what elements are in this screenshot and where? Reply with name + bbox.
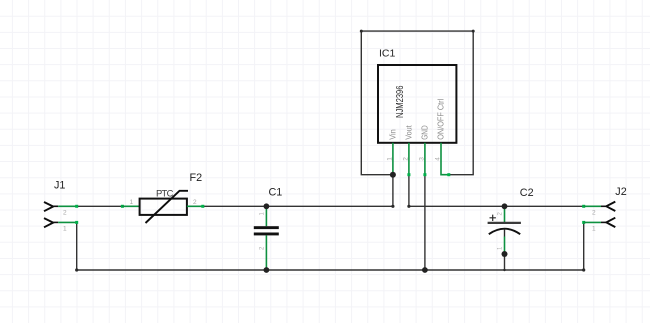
F2 pin 2 (187, 205, 204, 207)
pin 2 stub (408, 143, 410, 175)
svg-text:2: 2 (193, 199, 197, 206)
svg-text:C1: C1 (269, 187, 283, 199)
node: rail start at pin2 (407, 205, 410, 208)
capacitor C1 (254, 187, 283, 270)
plus sign (490, 215, 496, 221)
svg-text:Vin: Vin (387, 129, 397, 140)
node: J1 corner bottom (75, 268, 78, 271)
wire: J2 pin1 drop (583, 222, 585, 270)
svg-text:F2: F2 (190, 172, 203, 184)
svg-text:1: 1 (130, 199, 134, 206)
svg-text:PTC: PTC (156, 188, 174, 199)
svg-text:IC1: IC1 (379, 48, 396, 60)
wire: C1 to IC pin1 drop (266, 205, 393, 207)
svg-text:J2: J2 (615, 186, 626, 198)
junction: IC pin1 / loop (390, 172, 396, 178)
svg-text:1: 1 (592, 226, 596, 233)
F2 body (140, 199, 187, 215)
J2 pin 2 arrow (582, 205, 585, 208)
svg-text:NJM2396: NJM2396 (395, 85, 406, 118)
node: rail end at pin1 (391, 205, 394, 208)
wire: C2 bottom to rail (504, 254, 506, 270)
wire: J1 pin2 to F2 pin1 (77, 205, 122, 207)
wire: bottom rail (77, 269, 584, 271)
pin 4 stub (441, 143, 450, 175)
node: loop corner TR (472, 30, 475, 33)
svg-text:2: 2 (63, 210, 67, 217)
PTC fuse F2 (121, 172, 204, 223)
connector J2 (582, 186, 627, 233)
node: loop corner TL (360, 30, 363, 33)
svg-text:Vout: Vout (403, 125, 413, 140)
junction: C2 top (502, 203, 508, 209)
top plate (488, 222, 521, 224)
node: J2 corner bottom (582, 268, 585, 271)
junction: GND at bottom rail (422, 267, 428, 273)
wire: IC loop (ON/OFF Ctrl to Vin) (361, 31, 473, 175)
regulator IC U1 (IC1) (378, 48, 456, 177)
C2 top lead (504, 206, 506, 222)
curved plate (489, 229, 520, 235)
wire: J1 pin1 corner down (76, 222, 78, 270)
pin 1 stub (392, 143, 394, 175)
junction: C1 top (264, 203, 270, 209)
J1 pin 1 arrow (44, 218, 53, 227)
pin 3 stub (424, 143, 426, 175)
node: C2 rail tie (503, 269, 505, 271)
wire: IC pin1 to rail (392, 175, 394, 207)
wire: IC pin2 drop to J2 pin2 (409, 205, 584, 207)
IC body (378, 65, 456, 143)
J1 pin 2 arrow (44, 202, 53, 211)
svg-text:2: 2 (592, 210, 596, 217)
wire: IC pin2 to rail (408, 175, 410, 207)
svg-text:GND: GND (419, 125, 429, 140)
svg-text:J1: J1 (54, 180, 65, 192)
svg-text:1: 1 (63, 226, 67, 233)
J2 pin 1 arrowhead (606, 218, 615, 227)
J2 pin 1 arrow (582, 221, 585, 224)
C1 top lead (265, 206, 267, 226)
J2 pin 2 arrowhead (606, 202, 615, 211)
capacitor C2 polarized (488, 187, 534, 252)
wire: F2 pin2 to C1 (204, 205, 267, 207)
svg-text:ON/OFF Ctrl: ON/OFF Ctrl (435, 99, 445, 140)
F2 pin 1 (121, 205, 124, 208)
junction: C2 bottom pin (502, 251, 508, 257)
wire: IC pin3 GND drop (424, 175, 426, 270)
svg-text:C2: C2 (520, 187, 534, 199)
connector J1 (44, 180, 78, 233)
junction: C1 bottom (264, 267, 270, 273)
